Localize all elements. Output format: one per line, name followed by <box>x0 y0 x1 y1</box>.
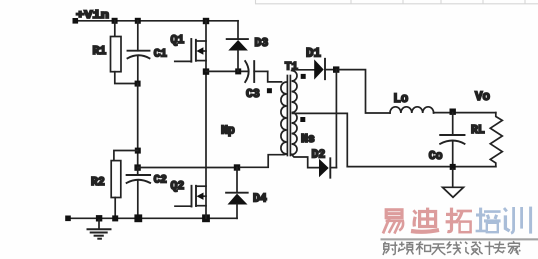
node Q2 source junction <box>202 214 210 222</box>
resistor R2 <box>111 161 121 198</box>
node rail left terminal <box>65 216 71 222</box>
glyph 设 <box>465 242 479 255</box>
glyph 计 <box>479 241 494 255</box>
Q1 body stub <box>202 50 207 52</box>
Q2 body stub <box>202 195 207 197</box>
D3 top lead <box>237 21 239 39</box>
node ground junction <box>96 215 102 221</box>
glyph 和 <box>416 242 431 255</box>
diode D1 <box>314 59 333 80</box>
glyph 线 <box>447 242 462 255</box>
wire C2 top lead <box>137 168 139 175</box>
wire secondary center tap <box>293 113 348 166</box>
wire secondary top lead <box>293 69 315 71</box>
glyph 迪 <box>411 208 439 232</box>
wire Co bottom lead <box>452 141 454 167</box>
node R2 bottom junction <box>112 215 118 221</box>
node D1/D2 cathode junction <box>333 66 339 72</box>
resistor RL zigzag <box>490 113 502 167</box>
wire secondary bottom lead <box>292 155 319 168</box>
node primary polarity dot <box>267 88 272 93</box>
glyph 拓 <box>446 208 472 233</box>
transformer T1 core <box>286 76 288 156</box>
C3 right lead <box>254 70 268 72</box>
glyph 射 <box>383 242 397 255</box>
Q2 channel bar <box>195 186 197 206</box>
wire bottom ground rail <box>68 217 237 219</box>
Q2 body arrow <box>197 193 204 200</box>
watermark subtitle 射频和天线设计专家 <box>383 241 520 255</box>
capacitor C2 <box>127 174 151 176</box>
Q1 gate lead <box>175 60 192 62</box>
wire R1 top lead <box>114 21 116 37</box>
glyph 专 <box>493 241 505 253</box>
glyph 培 <box>476 208 501 233</box>
D3 bottom lead <box>237 51 239 72</box>
Q2 drain stub <box>196 185 206 187</box>
wire C1 bottom lead <box>137 56 139 84</box>
wire output bottom rail <box>347 166 496 168</box>
wire C1 top lead <box>137 21 139 51</box>
wire primary bottom lead <box>240 154 287 167</box>
node Q1 source (node A) <box>203 68 209 74</box>
Q2 gate bar <box>191 186 193 207</box>
transformer T1 primary winding Np <box>281 82 287 154</box>
node C2 bottom junction <box>134 214 142 222</box>
D3 cathode bar <box>227 38 248 40</box>
D3 body <box>228 40 248 51</box>
transistor Q1 <box>175 39 206 62</box>
resistor R1 <box>111 37 122 72</box>
capacitor C1 <box>128 50 150 52</box>
node secondary top polarity dot <box>301 74 306 79</box>
capacitor C3 <box>245 61 268 82</box>
glyph 易 <box>383 210 403 234</box>
Q1 source stub <box>196 60 206 62</box>
inductor Lo <box>390 107 434 113</box>
Q1 gate bar <box>190 39 192 62</box>
wire Lo to output <box>434 112 496 114</box>
node R1 top junction <box>112 18 118 24</box>
wire Co top lead <box>452 113 454 135</box>
node Q1 drain junction <box>203 18 209 24</box>
glyph 训 <box>504 207 531 234</box>
node C2 top junction <box>134 164 140 170</box>
wire R1 bottom lead <box>115 72 138 84</box>
glyph 家 <box>508 241 520 255</box>
wire D2 cathode to node <box>335 70 337 168</box>
table border fragment top <box>255 0 538 4</box>
Q1 body arrow <box>196 47 203 54</box>
diode D3 <box>227 21 248 72</box>
transformer T1 secondary winding Ns <box>292 71 297 155</box>
wire half-bridge column (Q1 drain to Q2 source) <box>205 21 207 219</box>
node C1-R1 junction <box>135 81 141 87</box>
node Co bottom junction <box>450 164 456 170</box>
Q2 source stub <box>196 205 206 207</box>
node secondary mid polarity dot <box>300 117 305 122</box>
glyph 频 <box>398 242 413 255</box>
wire rectified output to Lo <box>339 70 390 113</box>
node Co top junction <box>450 109 456 115</box>
wire node A to D3/C3 <box>206 70 248 72</box>
Q1 channel bar <box>195 40 197 61</box>
diode D2 <box>319 158 336 177</box>
capacitor Co <box>440 134 464 136</box>
node C1 top junction <box>135 18 141 24</box>
node +Vin terminal <box>73 18 79 24</box>
wire C2 bottom lead <box>137 180 139 218</box>
glyph 天 <box>432 244 446 255</box>
wire top rail +Vin <box>75 20 238 22</box>
diode D4 <box>226 168 248 219</box>
D4 bottom lead <box>236 205 238 219</box>
Q2 gate lead <box>175 205 192 207</box>
D4 body <box>228 194 248 205</box>
wire R2 bottom lead <box>114 198 116 219</box>
transistor Q2 <box>175 186 206 207</box>
wire R2 top lead <box>114 151 138 161</box>
watermark underline <box>381 238 538 240</box>
node R2 top junction <box>135 148 141 154</box>
wire cap midpoint column <box>137 84 139 168</box>
node D4 anode junction <box>234 164 240 170</box>
D4 top lead <box>236 168 238 193</box>
output ground <box>452 169 454 187</box>
wire primary top lead <box>268 71 282 82</box>
Q1 drain stub <box>196 40 206 42</box>
node D3 anode junction <box>235 68 241 74</box>
D4 cathode bar <box>226 192 248 194</box>
ground earth symbol <box>98 220 100 228</box>
wire cap midpoint to D4 node <box>138 167 237 169</box>
